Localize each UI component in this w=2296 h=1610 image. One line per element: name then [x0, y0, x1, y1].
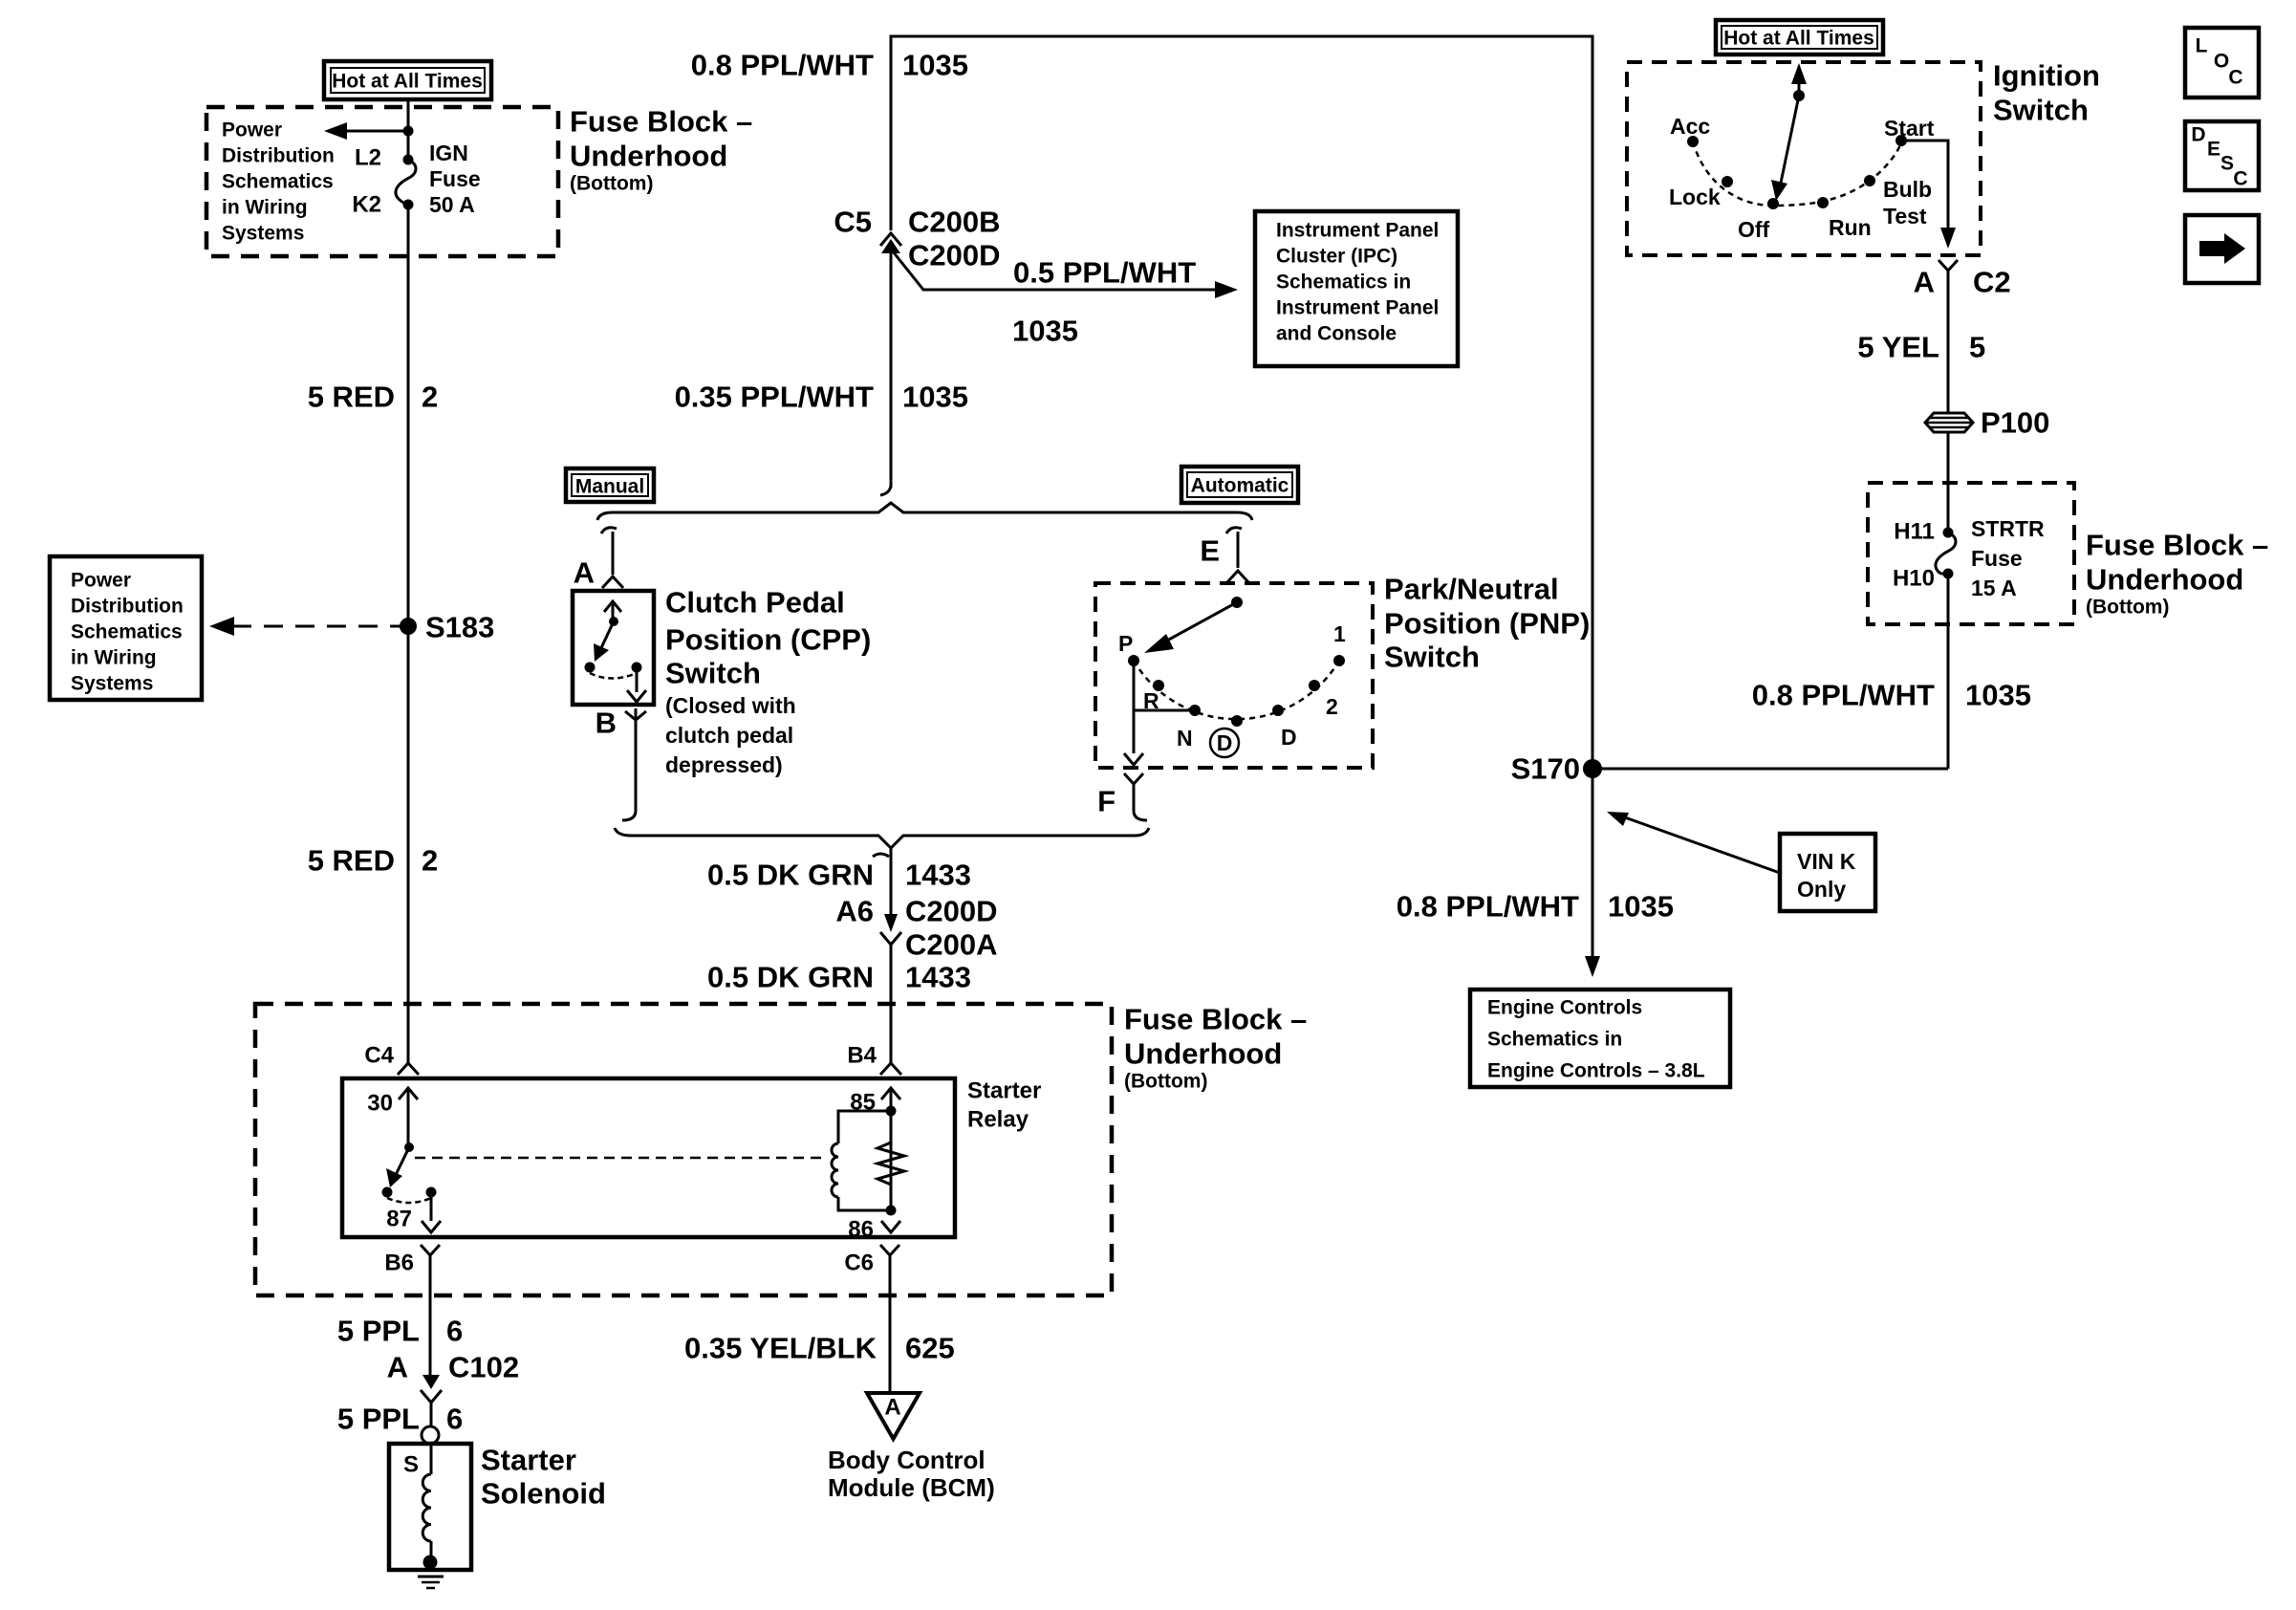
svg-text:Distribution: Distribution	[71, 596, 184, 618]
svg-text:0.8 PPL/WHT: 0.8 PPL/WHT	[1397, 890, 1579, 924]
svg-text:Fuse: Fuse	[429, 166, 481, 191]
svg-text:1035: 1035	[1965, 679, 2031, 712]
svg-text:Automatic: Automatic	[1191, 475, 1289, 497]
svg-text:Fuse Block –: Fuse Block –	[1124, 1003, 1307, 1036]
svg-text:in Wiring: in Wiring	[222, 197, 308, 219]
svg-text:Instrument Panel: Instrument Panel	[1276, 220, 1439, 242]
svg-text:C200D: C200D	[908, 239, 1001, 272]
svg-text:Systems: Systems	[222, 223, 304, 245]
svg-text:625: 625	[905, 1332, 955, 1365]
svg-text:86: 86	[848, 1217, 874, 1243]
svg-text:Ignition: Ignition	[1993, 59, 2100, 93]
svg-text:C2: C2	[1973, 266, 2011, 299]
svg-text:C5: C5	[834, 206, 872, 239]
svg-text:Switch: Switch	[1993, 94, 2089, 127]
svg-text:1035: 1035	[902, 49, 968, 82]
svg-text:Fuse Block –: Fuse Block –	[2086, 529, 2268, 562]
svg-text:Relay: Relay	[967, 1107, 1029, 1133]
svg-text:Clutch Pedal: Clutch Pedal	[665, 586, 845, 620]
svg-text:and Console: and Console	[1276, 323, 1397, 345]
svg-text:A: A	[387, 1351, 408, 1384]
svg-text:C200A: C200A	[905, 928, 998, 962]
svg-text:Manual: Manual	[575, 476, 644, 498]
svg-text:0.8 PPL/WHT: 0.8 PPL/WHT	[691, 49, 874, 82]
svg-text:A: A	[1914, 266, 1935, 299]
svg-text:87: 87	[386, 1207, 412, 1232]
svg-text:S170: S170	[1511, 752, 1580, 786]
svg-text:1035: 1035	[1608, 890, 1674, 924]
svg-text:Position (PNP): Position (PNP)	[1384, 607, 1590, 641]
svg-text:R: R	[1143, 688, 1159, 713]
svg-text:N: N	[1177, 726, 1193, 751]
svg-text:0.35 PPL/WHT: 0.35 PPL/WHT	[675, 381, 874, 414]
svg-text:1: 1	[1333, 621, 1346, 646]
svg-text:Acc: Acc	[1670, 114, 1710, 139]
svg-text:0.35 YEL/BLK: 0.35 YEL/BLK	[684, 1332, 877, 1365]
svg-text:0.8 PPL/WHT: 0.8 PPL/WHT	[1752, 679, 1935, 712]
svg-text:Park/Neutral: Park/Neutral	[1384, 573, 1559, 606]
svg-text:1433: 1433	[905, 961, 971, 994]
svg-text:Fuse: Fuse	[1971, 546, 2023, 571]
svg-text:E: E	[1200, 534, 1220, 568]
svg-text:Module (BCM): Module (BCM)	[828, 1473, 995, 1502]
svg-text:P: P	[1118, 631, 1133, 656]
svg-text:C: C	[2228, 67, 2242, 89]
svg-text:2: 2	[422, 844, 438, 878]
svg-text:B6: B6	[384, 1251, 414, 1276]
svg-text:5 YEL: 5 YEL	[1857, 331, 1939, 364]
svg-text:Starter: Starter	[967, 1078, 1041, 1104]
svg-text:Test: Test	[1883, 204, 1927, 228]
svg-text:5 RED: 5 RED	[308, 381, 395, 414]
svg-text:L: L	[2196, 35, 2208, 57]
svg-text:Schematics: Schematics	[71, 621, 183, 643]
svg-text:Distribution: Distribution	[222, 145, 335, 167]
svg-text:Cluster (IPC): Cluster (IPC)	[1276, 246, 1397, 268]
svg-text:B4: B4	[847, 1043, 877, 1069]
svg-text:2: 2	[422, 381, 438, 414]
svg-text:C6: C6	[844, 1251, 874, 1276]
svg-text:A: A	[574, 556, 595, 590]
svg-text:Power: Power	[222, 120, 282, 141]
svg-text:Engine Controls: Engine Controls	[1487, 997, 1642, 1019]
svg-text:Starter: Starter	[481, 1444, 576, 1477]
svg-text:Schematics in: Schematics in	[1487, 1029, 1622, 1051]
svg-text:2: 2	[1326, 694, 1338, 719]
svg-text:Underhood: Underhood	[2086, 563, 2243, 597]
svg-text:D: D	[1281, 725, 1297, 750]
svg-text:Schematics in: Schematics in	[1276, 272, 1411, 294]
svg-text:0.5 PPL/WHT: 0.5 PPL/WHT	[1013, 256, 1196, 290]
svg-text:5: 5	[1969, 331, 1985, 364]
svg-text:VIN K: VIN K	[1797, 849, 1856, 874]
svg-text:Run: Run	[1829, 215, 1872, 240]
svg-text:6: 6	[446, 1403, 463, 1436]
svg-text:1035: 1035	[902, 381, 968, 414]
svg-text:S: S	[403, 1452, 419, 1478]
svg-text:C: C	[2233, 168, 2247, 190]
svg-text:Lock: Lock	[1669, 185, 1721, 209]
svg-text:H11: H11	[1894, 519, 1935, 545]
svg-text:clutch pedal: clutch pedal	[665, 723, 793, 748]
svg-text:5 PPL: 5 PPL	[337, 1315, 420, 1348]
svg-text:Start: Start	[1884, 116, 1935, 141]
svg-text:S: S	[2220, 153, 2234, 175]
svg-text:(Bottom): (Bottom)	[1124, 1071, 1207, 1093]
svg-text:C4: C4	[364, 1043, 394, 1069]
svg-text:Power: Power	[71, 570, 131, 592]
svg-text:Schematics: Schematics	[222, 171, 334, 193]
svg-text:B: B	[596, 707, 617, 740]
svg-text:Fuse Block –: Fuse Block –	[570, 105, 752, 139]
svg-text:1035: 1035	[1012, 315, 1078, 348]
svg-text:K2: K2	[352, 192, 381, 218]
svg-text:C102: C102	[448, 1351, 519, 1384]
svg-text:5 RED: 5 RED	[308, 844, 395, 878]
svg-text:A: A	[884, 1395, 900, 1421]
svg-text:Body Control: Body Control	[828, 1446, 986, 1474]
svg-text:30: 30	[367, 1091, 393, 1117]
svg-text:H10: H10	[1893, 566, 1935, 592]
svg-text:C200D: C200D	[905, 895, 998, 928]
svg-text:A6: A6	[835, 895, 874, 928]
svg-text:depressed): depressed)	[665, 752, 783, 777]
svg-text:Underhood: Underhood	[570, 140, 727, 173]
svg-text:Solenoid: Solenoid	[481, 1477, 606, 1511]
svg-text:Switch: Switch	[1384, 641, 1480, 674]
svg-text:0.5 DK GRN: 0.5 DK GRN	[707, 961, 874, 994]
svg-text:D: D	[1217, 730, 1233, 755]
svg-text:Instrument Panel: Instrument Panel	[1276, 297, 1439, 319]
svg-text:C200B: C200B	[908, 206, 1001, 239]
svg-text:S183: S183	[425, 611, 494, 644]
svg-text:1433: 1433	[905, 859, 971, 892]
svg-text:Position (CPP): Position (CPP)	[665, 623, 871, 657]
svg-text:L2: L2	[355, 145, 381, 171]
svg-text:15 A: 15 A	[1971, 576, 2017, 600]
svg-text:Only: Only	[1797, 877, 1846, 902]
svg-text:Bulb: Bulb	[1883, 177, 1932, 202]
svg-text:Systems: Systems	[71, 673, 153, 695]
svg-text:IGN: IGN	[429, 141, 468, 165]
svg-text:F: F	[1097, 785, 1116, 818]
svg-text:Engine Controls – 3.8L: Engine Controls – 3.8L	[1487, 1060, 1705, 1082]
svg-text:Hot at All Times: Hot at All Times	[1723, 28, 1874, 50]
svg-text:P100: P100	[1981, 406, 2049, 440]
svg-text:5 PPL: 5 PPL	[337, 1403, 420, 1436]
svg-text:(Closed with: (Closed with	[665, 693, 796, 718]
svg-text:O: O	[2214, 51, 2229, 73]
svg-text:STRTR: STRTR	[1971, 516, 2045, 541]
svg-text:Switch: Switch	[665, 657, 761, 690]
svg-text:Underhood: Underhood	[1124, 1037, 1282, 1071]
svg-text:6: 6	[446, 1315, 463, 1348]
svg-text:50 A: 50 A	[429, 192, 475, 217]
svg-text:0.5 DK GRN: 0.5 DK GRN	[707, 859, 874, 892]
svg-text:in Wiring: in Wiring	[71, 647, 157, 669]
svg-text:(Bottom): (Bottom)	[2086, 597, 2169, 619]
svg-text:(Bottom): (Bottom)	[570, 173, 653, 195]
svg-text:Hot at All Times: Hot at All Times	[332, 71, 483, 93]
svg-text:Off: Off	[1738, 217, 1770, 242]
svg-text:D: D	[2191, 124, 2205, 146]
svg-text:E: E	[2207, 139, 2220, 161]
